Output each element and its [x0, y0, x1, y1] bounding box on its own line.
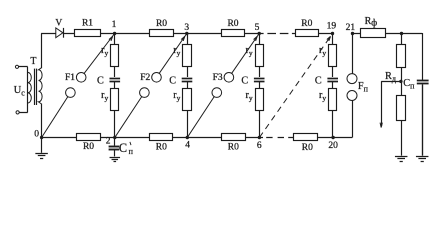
resistor ry upper (branch 4): [329, 45, 337, 67]
svg-text:п: п: [129, 147, 134, 156]
resistor R0 top 3: [296, 30, 319, 37]
svg-text:2: 2: [106, 136, 111, 146]
arrowhead dashed diagonal: [329, 36, 331, 41]
wire secondary bottom to node 0: [41, 104, 43, 138]
svg-text:R0: R0: [228, 143, 239, 153]
node 5: [258, 32, 261, 35]
wire to node 4: [173, 137, 222, 139]
ground below Cп: [422, 84, 424, 155]
wire ry lower to bottom rail (branch 1): [114, 111, 116, 138]
ground below C'п: [114, 150, 116, 157]
svg-text:C: C: [119, 141, 127, 155]
transformer T core: [34, 69, 36, 105]
capacitor C (branch 3): [254, 78, 265, 80]
wire tap to arrow: [381, 81, 401, 83]
wire to node 20: [318, 137, 353, 139]
spark gap lower electrode (F2): [140, 88, 150, 98]
svg-text:F3: F3: [213, 73, 223, 83]
wire divider middle: [401, 68, 403, 96]
svg-text:4: 4: [185, 141, 190, 151]
spark gap upper electrode (F3): [224, 73, 234, 83]
svg-text:R0: R0: [302, 143, 313, 153]
wire ry to C (branch 4): [332, 66, 334, 77]
resistor R0 top 1: [150, 30, 174, 37]
wire primary bottom terminal to coil: [19, 112, 28, 114]
node 4: [186, 136, 189, 139]
wire ry lower to bottom rail (branch 4): [332, 111, 334, 138]
svg-text:20: 20: [328, 141, 338, 151]
resistor ry upper (branch 3): [256, 45, 264, 67]
node 1: [113, 32, 116, 35]
resistor ry lower (branch 4): [329, 89, 337, 111]
wire primary top terminal to coil: [19, 66, 28, 68]
wire C to ry lower (branch 4): [332, 82, 334, 88]
resistor ry lower (branch 2): [183, 89, 192, 111]
svg-text:5: 5: [255, 23, 260, 33]
wire Rf to right corner: [385, 33, 422, 35]
wire to node 6: [245, 137, 263, 139]
svg-text:R0: R0: [301, 19, 312, 29]
dashed wire bottom rail continuation: [266, 137, 272, 139]
transformer T primary terminal (bottom): [16, 111, 19, 114]
resistor ry upper (branch 2): [183, 45, 192, 67]
junction node divider top: [400, 32, 403, 35]
wire ry to C (branch 3): [259, 66, 261, 77]
spark gap Fp upper electrode: [347, 74, 357, 84]
spark gap upper electrode (F2): [152, 73, 162, 83]
resistor Rф: [361, 29, 386, 38]
wire R0 to node 19: [318, 33, 332, 35]
capacitor C (branch 2): [182, 78, 193, 80]
node 20: [331, 136, 334, 139]
svg-text:19: 19: [327, 22, 337, 32]
resistor R0 bottom 4: [294, 134, 318, 141]
resistor ry lower (branch 3): [256, 89, 264, 111]
wire R1 to R0: [101, 33, 150, 35]
svg-text:C: C: [241, 75, 248, 86]
wire ry to C (branch 1): [114, 66, 116, 77]
transformer T secondary winding: [39, 68, 43, 104]
ground at node 0: [41, 138, 43, 153]
wire diode to R1: [63, 33, 74, 35]
wire ry lower to bottom rail (branch 2): [187, 111, 189, 138]
node 2: [113, 136, 116, 139]
wire top rail to diode: [41, 33, 56, 35]
svg-text:R0: R0: [156, 143, 167, 153]
wire node to ry upper (branch 3): [259, 34, 261, 45]
wire to R0 top 3: [292, 33, 295, 35]
node 19: [331, 32, 334, 35]
node 21: [351, 32, 354, 35]
arrowhead at top node (F2): [183, 36, 185, 41]
transformer T primary winding: [28, 72, 32, 103]
spark gap lower electrode (F1): [66, 88, 76, 98]
wire spark gap lower lead (F2): [115, 93, 145, 138]
wire node to ry upper (branch 2): [187, 34, 189, 45]
svg-text:6: 6: [257, 141, 262, 151]
svg-text:21: 21: [346, 23, 356, 33]
wire R0 to node 5: [245, 33, 264, 35]
wire node to ry upper (branch 4): [332, 34, 334, 45]
dashed diagonal continuation arrow to node 19: [259, 35, 331, 138]
wire corner to Cp: [422, 33, 424, 80]
wire node 21 down to Fp: [352, 34, 354, 74]
spark gap Fp lower electrode: [347, 91, 357, 101]
resistor R0 bottom 2: [150, 134, 173, 141]
wire spark gap upper lead (F1): [81, 34, 114, 78]
node 3: [185, 32, 188, 35]
wire node 0 to R0: [42, 137, 76, 139]
capacitor C'п at node 2: [114, 138, 116, 146]
svg-text:0: 0: [34, 130, 39, 140]
arrowhead at top node (F3): [256, 36, 258, 41]
wire to R0 bottom 4: [288, 137, 293, 139]
node 0: [40, 136, 43, 139]
resistor R0 bottom 1: [77, 134, 101, 141]
wire C to ry lower (branch 3): [259, 82, 261, 88]
svg-text:1: 1: [112, 20, 117, 30]
spark gap upper electrode (F1): [76, 73, 86, 83]
wire ry lower to bottom rail (branch 3): [259, 111, 261, 138]
wire secondary top to top rail: [41, 34, 43, 69]
capacitor C (branch 4): [327, 78, 338, 80]
resistor divider lower Rд: [397, 96, 406, 121]
transformer T primary terminal (top): [15, 65, 18, 68]
wire spark gap lower lead (F3): [187, 93, 217, 138]
svg-text:C: C: [315, 75, 322, 86]
node 6: [258, 136, 261, 139]
wire Fp down to bottom rail corner: [352, 101, 354, 138]
spark gap lower electrode (F3): [212, 88, 222, 98]
resistor R1: [75, 30, 101, 37]
svg-text:R0: R0: [83, 142, 94, 152]
resistor R0 bottom 3: [222, 134, 246, 141]
resistor divider upper: [397, 45, 406, 68]
arrowhead at top node (F1): [111, 36, 113, 41]
wire R0 to R0: [173, 33, 221, 35]
wire spark gap upper lead (F3): [229, 34, 259, 78]
svg-text:R0: R0: [156, 19, 167, 29]
ground below divider: [401, 121, 403, 156]
svg-text:Rф: Rф: [365, 16, 378, 28]
svg-text:3: 3: [184, 23, 189, 33]
wire primary chord: [27, 67, 29, 113]
arrow output voltage: [380, 123, 381, 128]
svg-text:R1: R1: [82, 19, 93, 29]
svg-text:V: V: [55, 18, 62, 28]
svg-text:C: C: [97, 75, 104, 86]
wire C to ry lower (branch 2): [187, 82, 189, 88]
capacitor C (branch 1): [110, 78, 121, 80]
svg-text:F1: F1: [65, 73, 75, 83]
resistor ry lower (branch 1): [111, 89, 119, 111]
svg-text:C: C: [169, 75, 176, 86]
resistor ry upper (branch 1): [111, 45, 119, 67]
node divider tap: [399, 80, 402, 83]
svg-text:R0: R0: [227, 19, 238, 29]
dashed wire top rail continuation: [267, 33, 276, 35]
wire node to ry upper (branch 1): [114, 34, 116, 45]
svg-text:T: T: [30, 56, 36, 67]
svg-text:F2: F2: [140, 73, 150, 83]
wire Cp to ground: [422, 84, 424, 155]
wire to node 2: [101, 137, 150, 139]
wire node 21 to Rf: [353, 33, 361, 35]
wire ry to C (branch 2): [187, 66, 189, 77]
diode V: [56, 28, 63, 38]
wire spark gap lower lead (F1): [42, 93, 71, 138]
wire to divider resistor: [401, 34, 403, 45]
wire C to ry lower (branch 1): [114, 82, 116, 88]
resistor R0 top 2: [222, 30, 245, 37]
capacitor Cп: [417, 80, 429, 82]
wire spark gap upper lead (F2): [156, 34, 186, 78]
